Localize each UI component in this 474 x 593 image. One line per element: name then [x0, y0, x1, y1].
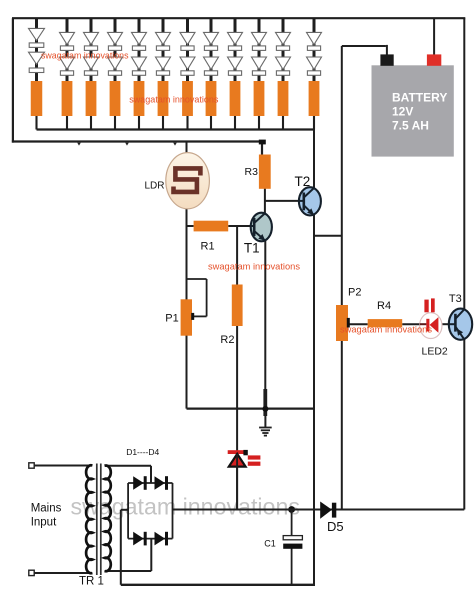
svg-text:T2: T2: [295, 174, 311, 189]
svg-text:R2: R2: [220, 334, 234, 346]
svg-text:R1: R1: [201, 240, 215, 252]
svg-text:swagatam innovations: swagatam innovations: [340, 325, 432, 335]
svg-text:R3: R3: [245, 166, 259, 178]
svg-text:swagatam innovations: swagatam innovations: [41, 51, 129, 61]
svg-text:C1: C1: [264, 538, 276, 548]
svg-text:D5: D5: [327, 519, 344, 534]
svg-text:R4: R4: [377, 300, 391, 312]
svg-text:Input: Input: [31, 517, 57, 529]
svg-text:LED2: LED2: [422, 345, 448, 357]
svg-text:TR 1: TR 1: [79, 576, 104, 588]
svg-text:swagatam innovations: swagatam innovations: [208, 262, 300, 272]
svg-text:P2: P2: [348, 287, 361, 299]
svg-text:D1----D4: D1----D4: [126, 447, 159, 457]
svg-text:7.5 AH: 7.5 AH: [392, 118, 429, 132]
svg-text:12V: 12V: [392, 105, 413, 119]
svg-text:LDR: LDR: [145, 180, 165, 191]
svg-text:Mains: Mains: [31, 503, 62, 515]
svg-text:P1: P1: [165, 313, 178, 325]
svg-text:T3: T3: [449, 293, 462, 305]
svg-text:T1: T1: [244, 241, 260, 256]
svg-text:BATTERY: BATTERY: [392, 91, 447, 105]
svg-text:swagatam innovations: swagatam innovations: [129, 94, 219, 104]
